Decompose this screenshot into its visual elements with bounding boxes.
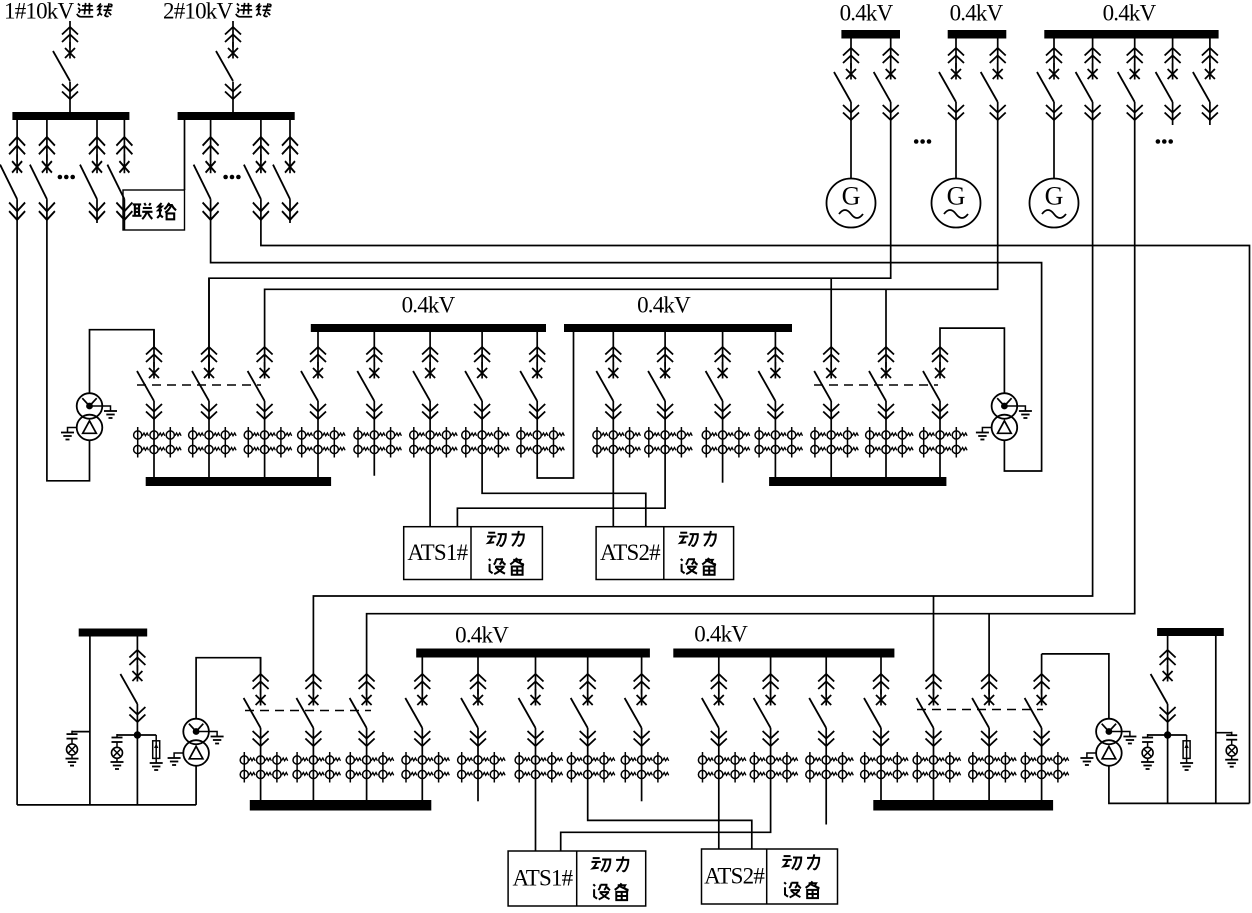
svg-text:ATS2#: ATS2# [704, 864, 765, 889]
svg-text:1#10kV: 1#10kV [4, 0, 75, 24]
svg-text:0.4kV: 0.4kV [1103, 1, 1157, 26]
svg-text:0.4kV: 0.4kV [694, 622, 748, 647]
svg-text:0.4kV: 0.4kV [402, 293, 456, 318]
svg-text:0.4kV: 0.4kV [637, 293, 691, 318]
svg-text:ATS1#: ATS1# [407, 540, 468, 565]
svg-text:ATS1#: ATS1# [512, 866, 573, 891]
svg-text:0.4kV: 0.4kV [840, 1, 894, 26]
svg-text:0.4kV: 0.4kV [950, 1, 1004, 26]
svg-text:ATS2#: ATS2# [600, 540, 661, 565]
svg-text:2#10kV: 2#10kV [163, 0, 234, 24]
svg-text:0.4kV: 0.4kV [455, 623, 509, 648]
